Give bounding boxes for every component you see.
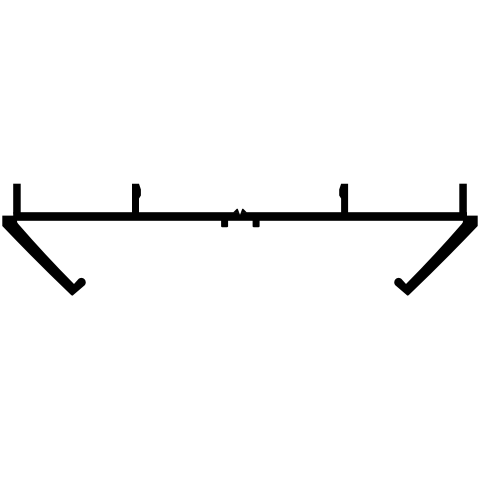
top tab 2 (inner left, barbed) <box>132 184 141 214</box>
center v-notch (white) <box>237 207 243 215</box>
left leg with hook <box>2 216 85 296</box>
center ridge bumps <box>233 209 247 213</box>
top tab 1 (left end) <box>13 184 21 214</box>
top tab 3 (inner right, barbed) <box>339 184 348 214</box>
top tab 4 (right end) <box>459 184 467 214</box>
right leg with hook <box>394 216 477 296</box>
horizontal bar <box>13 212 467 221</box>
bottom tab right of center <box>253 219 260 227</box>
bottom tab left of center <box>221 219 228 227</box>
